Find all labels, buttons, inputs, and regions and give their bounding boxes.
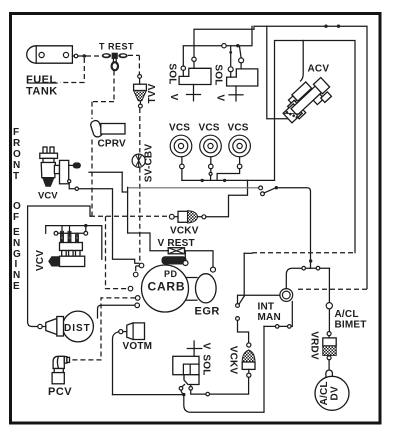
wire dashed right loop to INT MAN — [296, 288, 367, 290]
svg-text:V: V — [201, 343, 212, 350]
wire SOL V lower right port to VCKV lower bottom — [191, 377, 249, 396]
wire dashed junction row to VCKV upper — [90, 215, 167, 217]
svg-text:E: E — [13, 227, 20, 238]
wire riser from box wire down to ACV — [301, 41, 304, 82]
svg-text:I: I — [15, 259, 18, 270]
svg-text:E: E — [13, 281, 20, 292]
svg-text:PD: PD — [164, 269, 178, 279]
svg-text:O: O — [13, 149, 21, 160]
wire V REST left riser — [128, 233, 169, 251]
label INT MAN — [258, 302, 281, 324]
wire ACV feed from W1 — [267, 26, 291, 119]
carb port 5 — [135, 303, 140, 308]
sensor A/CL BIMET — [326, 303, 332, 309]
wire W2 from SOL1 left port joining W1 — [181, 26, 252, 76]
wire dashed T REST right to TVV — [128, 55, 139, 74]
svg-text:EGR: EGR — [195, 306, 220, 318]
wire SOL2 stem — [239, 47, 244, 69]
svg-text:SOL: SOL — [201, 354, 212, 375]
label SOL V lower — [201, 343, 212, 376]
svg-text:VRDV: VRDV — [309, 331, 320, 360]
wire dashed T REST stem down-left to CPRV — [92, 71, 114, 120]
svg-text:O: O — [13, 201, 21, 212]
T-fitting T REST — [102, 53, 128, 70]
svg-text:N: N — [13, 160, 20, 171]
wire DIST riser and VCV lower feed — [28, 206, 90, 327]
svg-text:VCS: VCS — [169, 123, 190, 134]
svg-text:A/CL: A/CL — [335, 309, 359, 320]
svg-text:R: R — [13, 138, 21, 149]
svg-text:ACV: ACV — [308, 64, 330, 75]
wire INT MAN upper net — [286, 266, 329, 288]
valve VCV upper — [40, 147, 81, 187]
solenoid SOL V lower — [173, 341, 202, 390]
distributor DIST — [38, 311, 94, 342]
solenoid SOL V second — [227, 69, 258, 101]
svg-text:T REST: T REST — [99, 42, 134, 52]
carburetor PD CARB — [142, 251, 189, 312]
wire VCV upper output to the right — [69, 183, 139, 263]
wire carb port 5 stub — [98, 305, 135, 318]
svg-text:F: F — [13, 212, 19, 223]
svg-text:N: N — [13, 270, 20, 281]
label FRONT OF ENGINE — [13, 127, 21, 292]
wire dashed CPRV down to junction — [91, 140, 93, 217]
svg-text:A/CL: A/CL — [319, 381, 330, 405]
actuator VOTM — [119, 323, 145, 340]
wire dashed down to carb port 3 — [106, 216, 127, 288]
svg-text:BIMET: BIMET — [335, 320, 367, 331]
wire INT MAN to switch — [238, 295, 280, 303]
fitting PCV — [52, 356, 69, 384]
wire SOL2 left port drop — [228, 46, 233, 77]
pipes VCV lower — [60, 226, 79, 243]
svg-text:INT: INT — [258, 302, 275, 313]
svg-text:VCKV: VCKV — [228, 346, 239, 375]
motor A/CL DV — [315, 360, 349, 411]
carb port 2 — [133, 272, 138, 277]
label VCKV lower — [228, 346, 239, 375]
wire A/CL BIMET riser — [328, 268, 330, 331]
valve VCV lower — [48, 243, 84, 267]
svg-text:DIST: DIST — [64, 323, 91, 334]
label FUEL TANK — [26, 74, 58, 98]
solenoid SOL V first — [179, 68, 211, 101]
wire dashed SV-CBV down to carb port 2 — [136, 168, 140, 272]
wire dashed from tank junction down to FUEL TANK label — [28, 58, 85, 83]
wire VCV lower top bar — [46, 224, 102, 259]
carb port 3 — [128, 286, 133, 291]
valve ACV assembly — [278, 72, 335, 128]
svg-text:VCV: VCV — [38, 191, 58, 202]
svg-text:SV-CBV: SV-CBV — [144, 144, 155, 183]
svg-text:TVV: TVV — [147, 83, 158, 103]
svg-text:PCV: PCV — [48, 386, 72, 398]
wire V REST output to EGR — [185, 251, 214, 267]
wire switch lower contact down to VCKV lower — [238, 320, 249, 342]
fuel tank — [27, 46, 73, 63]
svg-text:CARB: CARB — [148, 280, 186, 294]
label SOL V first — [167, 63, 180, 100]
svg-text:VCV: VCV — [35, 250, 46, 271]
wire VCKV upper right to VCS bus — [206, 180, 248, 216]
wire stub right of VCV upper — [89, 171, 122, 173]
valve VCS 1 — [170, 135, 192, 180]
label A/CL DV — [319, 381, 341, 405]
EGR valve — [186, 267, 216, 303]
svg-text:SOL: SOL — [213, 64, 224, 85]
svg-text:T: T — [13, 171, 19, 182]
svg-text:FUEL: FUEL — [26, 74, 57, 86]
svg-text:N: N — [13, 238, 20, 249]
svg-text:SOL: SOL — [167, 63, 178, 84]
wire dashed carb port 4 to PCV — [71, 298, 136, 360]
svg-text:VCKV: VCKV — [170, 226, 199, 237]
check valve VCKV lower — [242, 343, 255, 377]
wire from stub down to long wire — [122, 172, 127, 192]
svg-text:DV: DV — [330, 386, 341, 400]
valve VRDV — [323, 332, 336, 360]
valve SV-CBV — [132, 154, 145, 167]
wire VOTM down to bottom bus — [113, 332, 119, 395]
wire bottom bus and SOL V lower left port — [113, 390, 186, 396]
wire W1 big loop from SOL1 stem to right side — [192, 25, 367, 289]
manifold fitting INT MAN — [280, 289, 293, 302]
wire dashed TVV down to SV-CBV — [139, 108, 141, 153]
wire long horizontal to switch — [128, 186, 313, 268]
svg-text:MAN: MAN — [258, 312, 281, 323]
svg-text:V: V — [168, 94, 179, 101]
wire VCS bus — [182, 179, 275, 182]
wire box outline from VCS bus up and across to right side — [275, 41, 356, 253]
label SOL V second — [213, 64, 226, 101]
wire VCV lower circle wire — [54, 231, 88, 235]
svg-text:TANK: TANK — [26, 86, 58, 98]
svg-text:VCS: VCS — [199, 123, 220, 134]
valve CPRV — [90, 120, 125, 138]
check valve VCKV upper — [169, 211, 205, 223]
wire from fuel tank — [72, 54, 100, 58]
svg-text:V: V — [215, 94, 226, 101]
svg-text:VCS: VCS — [228, 123, 249, 134]
svg-text:VOTM: VOTM — [123, 341, 153, 352]
label A/CL BIMET — [335, 309, 367, 331]
wire bottom loop to INT MAN switch row — [184, 302, 292, 413]
svg-text:CPRV: CPRV — [98, 139, 127, 150]
carb port 4 — [135, 296, 140, 301]
switch contacts near INT MAN — [236, 296, 245, 320]
svg-text:F: F — [13, 127, 19, 138]
carb port 1 — [139, 263, 144, 268]
valve VCS 2 — [200, 135, 222, 180]
wire dashed right mid run — [244, 253, 355, 296]
restrictor V REST — [168, 248, 184, 254]
valve VCS 3 — [217, 135, 250, 180]
valve TVV — [134, 75, 147, 108]
